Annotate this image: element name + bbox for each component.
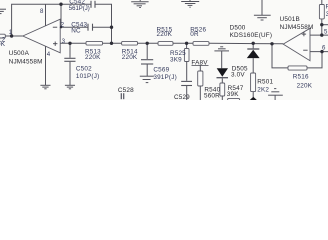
wire R513-R514 — [103, 42, 122, 44]
junction feedback top wire — [59, 2, 62, 5]
junction U500A output node — [10, 34, 13, 37]
wire pin8 power — [45, 4, 47, 26]
svg-text:8: 8 — [40, 8, 44, 15]
svg-text:220K: 220K — [122, 54, 138, 61]
resistor R516 — [288, 66, 307, 70]
svg-text:C529: C529 — [174, 94, 190, 100]
svg-text:2: 2 — [61, 21, 65, 28]
wire pin5 stub — [310, 34, 328, 36]
op-amp U500A — [23, 19, 60, 53]
ground C502 — [65, 85, 75, 89]
ground flipped (bottom right) — [268, 89, 283, 100]
junction pin6 wire — [320, 50, 323, 53]
wire R515-R526 — [173, 42, 193, 44]
svg-text:560R: 560R — [204, 93, 220, 100]
resistor top-right — [319, 0, 324, 35]
svg-text:6: 6 — [322, 45, 326, 52]
resistor R526 — [193, 42, 209, 46]
svg-text:C569: C569 — [153, 66, 169, 73]
svg-text:391P(J): 391P(J) — [153, 74, 176, 81]
op-amp U501B — [283, 28, 310, 60]
svg-text:1: 1 — [9, 29, 13, 36]
ground (top, x262) — [254, 0, 271, 20]
resistor R512 (partial, left edge) — [0, 34, 5, 38]
svg-text:C528: C528 — [118, 87, 134, 94]
svg-text:0R: 0R — [190, 31, 199, 38]
svg-text:3: 3 — [62, 38, 66, 45]
junction C543 right — [110, 26, 113, 29]
wire feedback loop U501B — [272, 44, 288, 68]
ground flipped (D505 top) — [214, 47, 229, 69]
resistor (partial, bottom edge) — [228, 98, 240, 102]
resistor R515 — [158, 42, 173, 46]
svg-text:U501B: U501B — [280, 16, 300, 23]
junction rail feedback tap — [270, 42, 273, 45]
svg-text:NJM4558M: NJM4558M — [9, 59, 43, 66]
wire loop right to pin6 — [307, 52, 322, 68]
resistor R547 — [220, 83, 225, 100]
junction rail R513-R514 — [110, 42, 113, 45]
svg-text:NC: NC — [71, 27, 81, 34]
diode D500 — [247, 43, 260, 73]
svg-text:U500A: U500A — [9, 50, 30, 57]
svg-text:KDS160E(UF): KDS160E(UF) — [230, 32, 273, 39]
svg-text:R501: R501 — [257, 78, 273, 85]
resistor R501 — [251, 73, 256, 97]
wire R526 to opamp2 — [209, 42, 283, 45]
ground (top, x190) — [181, 0, 199, 7]
svg-text:3.0V: 3.0V — [231, 72, 245, 79]
svg-text:39K: 39K — [227, 91, 239, 98]
capacitor C542 — [91, 1, 95, 8]
ground (top, x140) — [131, 0, 148, 8]
capacitor C529 — [181, 81, 192, 100]
svg-text:C502: C502 — [76, 65, 92, 72]
svg-text:R516: R516 — [293, 74, 309, 81]
wire top to C542 — [61, 3, 91, 5]
svg-text:D500: D500 — [230, 25, 246, 32]
svg-text:101P(J): 101P(J) — [76, 73, 99, 80]
capacitor C569 — [141, 43, 153, 76]
svg-text:220K: 220K — [157, 31, 173, 38]
svg-text:220K: 220K — [0, 41, 6, 48]
junction rail R525 tap — [185, 42, 188, 45]
diode (partial, bottom edge) — [250, 97, 257, 100]
wire feedback top from output junction — [12, 4, 61, 36]
wire main rail pin3 — [60, 42, 86, 44]
net stub FA8V / resistor R540 — [198, 66, 203, 100]
junction rail C502 tap — [68, 42, 71, 45]
wire C543 to vertical — [93, 26, 112, 28]
svg-text:4: 4 — [47, 51, 51, 58]
resistor R525 — [184, 43, 189, 81]
junction right stub — [320, 23, 323, 26]
junction rail D500 tap — [252, 42, 255, 45]
wire pin6 stub — [310, 51, 328, 53]
wire right stub y24.7 — [322, 24, 328, 26]
ground C569 — [140, 76, 154, 82]
svg-text:2K2: 2K2 — [257, 86, 269, 93]
capacitor C502 — [64, 43, 75, 85]
wire C542 to corner — [95, 4, 112, 43]
wire pin4 down — [45, 46, 47, 85]
zener diode D505 — [217, 68, 229, 83]
wire pin2 stub — [60, 26, 88, 28]
svg-text:220K: 220K — [297, 83, 313, 90]
svg-text:561P(J): 561P(J) — [69, 6, 90, 12]
node pin2 feedback vertical — [60, 4, 62, 27]
ground (partial, left edge) — [0, 9, 6, 13]
junction pin5 wire — [320, 33, 323, 36]
svg-text:C542: C542 — [69, 0, 85, 5]
ground pin4 — [40, 85, 50, 89]
svg-text:220K: 220K — [85, 54, 101, 61]
capacitor C528 (partial, bottom) — [121, 93, 123, 99]
resistor R513 — [86, 41, 103, 45]
resistor R514 — [122, 41, 138, 45]
junction rail C569 tap — [146, 42, 149, 45]
svg-text:NJM4558M: NJM4558M — [280, 24, 314, 31]
svg-text:5: 5 — [324, 29, 328, 36]
capacitor C543 — [88, 24, 93, 31]
wire R514-R515 — [138, 42, 159, 44]
svg-text:3K9: 3K9 — [170, 56, 182, 63]
wire output to op-amp — [5, 35, 23, 37]
junction pin2 stub — [60, 26, 62, 28]
